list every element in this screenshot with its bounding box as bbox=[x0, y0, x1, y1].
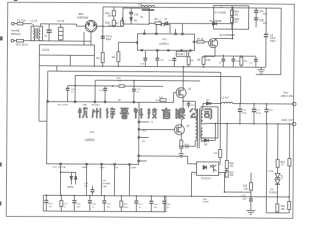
capacitor C21 bbox=[241, 196, 253, 211]
inductor L2 bbox=[222, 98, 293, 104]
terminal Vout+ bbox=[280, 92, 296, 106]
wire HV vertical rail bbox=[102, 7, 104, 53]
svg-text:1M: 1M bbox=[235, 14, 238, 16]
svg-text:(L6561): (L6561) bbox=[159, 42, 169, 46]
svg-text:+58V 0.35A: +58V 0.35A bbox=[280, 95, 293, 98]
wire secondary top bbox=[202, 103, 204, 110]
wire Q2 drain up bbox=[182, 67, 184, 88]
resistor R2 bbox=[116, 17, 124, 26]
capacitor C29 bottom bus bbox=[162, 195, 171, 212]
svg-text:1R5: 1R5 bbox=[185, 147, 190, 149]
capacitor C9 bbox=[218, 54, 225, 67]
resistor R9 bbox=[240, 55, 248, 67]
resistor R6 under IC2 bbox=[187, 51, 194, 67]
transistor Q3 MOSFET bbox=[174, 125, 190, 135]
wire AC bottom bbox=[40, 40, 91, 42]
resistor R23 bbox=[268, 123, 286, 173]
input sub-box bbox=[39, 45, 94, 66]
svg-text:CAP: CAP bbox=[102, 185, 107, 188]
capacitor C14hb bbox=[187, 101, 196, 108]
wire opto LED cathode bbox=[191, 172, 197, 197]
fuse F1 bbox=[14, 19, 32, 25]
wires IC1 bottom pins down bbox=[60, 165, 129, 196]
svg-text:5-T+A(3R): 5-T+A(3R) bbox=[215, 11, 226, 14]
wire right column B box edge bbox=[280, 8, 282, 75]
transformer T1 primary bbox=[195, 109, 197, 141]
zener DZ5A pair bbox=[60, 171, 77, 189]
transformer T1 secondary B bbox=[201, 128, 203, 142]
svg-text:INV_STBY: INV_STBY bbox=[58, 105, 69, 107]
node HV right bbox=[232, 7, 234, 9]
IC1 bottom pin names bbox=[53, 166, 137, 170]
resistor R24 bottom bbox=[288, 197, 291, 213]
svg-text:NTC 5D-9: NTC 5D-9 bbox=[16, 43, 28, 47]
capacitor C25 bottom bus bbox=[102, 195, 111, 212]
wire right ground bus bbox=[266, 212, 289, 214]
svg-text:0.68: 0.68 bbox=[206, 60, 211, 62]
svg-text:L1 1A: L1 1A bbox=[31, 19, 38, 23]
wire Q1 drain bbox=[215, 37, 232, 39]
transistor Q1 MOSFET bbox=[209, 35, 236, 48]
svg-text:D1 1N5406: D1 1N5406 bbox=[210, 21, 222, 23]
capacitor C3 bbox=[101, 35, 113, 41]
wire top rail to right columns bbox=[233, 7, 281, 9]
diode D8 bbox=[203, 123, 217, 147]
capacitor R15 bottom bus bbox=[44, 194, 53, 211]
capacitor C6 bbox=[164, 19, 168, 25]
svg-text:1M: 1M bbox=[235, 21, 238, 23]
capacitor C22 bottom bus bbox=[60, 195, 69, 212]
svg-text:470u: 470u bbox=[256, 113, 262, 115]
capacitor C5B bbox=[254, 18, 268, 27]
svg-text:PFC_GD P.A: PFC_GD P.A bbox=[53, 166, 66, 169]
diode D7 bbox=[207, 100, 222, 105]
wire right column A bbox=[265, 8, 267, 34]
svg-text:265VAC: 265VAC bbox=[11, 32, 21, 36]
ground Q3 bbox=[178, 154, 184, 158]
wire opto emitter to node bbox=[218, 172, 251, 193]
secondary sub-box bbox=[201, 107, 218, 138]
svg-text:2KBP06M: 2KBP06M bbox=[77, 16, 88, 19]
svg-text:PC817: PC817 bbox=[177, 53, 185, 56]
svg-text:R5A: R5A bbox=[235, 11, 240, 14]
svg-text:400V: 400V bbox=[106, 38, 112, 41]
svg-text:IC1: IC1 bbox=[90, 130, 95, 134]
ground main bbox=[246, 196, 255, 214]
capacitor C23 bottom bus bbox=[72, 195, 81, 212]
resistor R3 bbox=[96, 53, 104, 67]
svg-text:HVG: HVG bbox=[142, 130, 147, 132]
resistor R21 bbox=[276, 197, 286, 213]
capacitor C5A bbox=[254, 8, 268, 18]
snubber sub-box bbox=[123, 8, 149, 24]
resistor R22b stacked bbox=[225, 170, 234, 177]
feedback wire A bbox=[47, 71, 221, 163]
capacitor C16 bbox=[238, 103, 248, 125]
svg-text:Vin=85-: Vin=85- bbox=[11, 29, 20, 33]
svg-text:D2-D5: D2-D5 bbox=[42, 50, 49, 52]
capacitor C28 bottom bus bbox=[149, 195, 158, 212]
node DC+ junction bbox=[102, 25, 104, 27]
resistor R19 bbox=[214, 149, 222, 157]
svg-text:FLAG: FLAG bbox=[203, 200, 209, 203]
IC1 top pins bbox=[47, 101, 135, 103]
wire ground bus bbox=[43, 210, 165, 213]
resistor R14 bbox=[159, 97, 166, 102]
svg-text:1M: 1M bbox=[108, 25, 111, 28]
wire Q1 source row rail bbox=[204, 55, 256, 57]
svg-text:1N: 1N bbox=[140, 17, 143, 19]
transformer T1 core bbox=[197, 108, 199, 148]
wire AC top bbox=[40, 23, 76, 25]
resistor R8 sense bbox=[197, 56, 211, 67]
resistor R13 Q3 source bbox=[180, 135, 190, 154]
wire bottom bus bbox=[43, 195, 289, 197]
net label PC box bbox=[176, 51, 187, 56]
capacitor C14 under IC2 bbox=[155, 51, 164, 67]
optocoupler PC1 bbox=[194, 162, 222, 181]
svg-text:OCA: OCA bbox=[268, 170, 273, 173]
diode D1 bbox=[210, 21, 233, 25]
capacitor C15b bbox=[132, 80, 142, 103]
bridge rectifier BR1 bbox=[76, 13, 123, 45]
wire IC2 pin5 up bbox=[175, 29, 177, 33]
svg-text:L6591: L6591 bbox=[85, 138, 95, 142]
wire GND bus mid bbox=[39, 66, 265, 68]
wire drain rail bbox=[232, 8, 234, 39]
capacitor C7 bypass bbox=[156, 20, 170, 33]
NTC thermistor bbox=[14, 39, 32, 46]
terminal Vout- bbox=[281, 119, 296, 126]
op-amp IC2 L6561 box bbox=[136, 33, 195, 51]
ground mid bus bbox=[258, 67, 265, 74]
input voltage label bbox=[11, 29, 21, 37]
IC1 right pins bbox=[138, 121, 154, 162]
capacitor C5 bulk bbox=[264, 34, 276, 44]
capacitor C2 X2 box bbox=[57, 19, 65, 41]
IC1 bottom pins bbox=[60, 163, 131, 165]
capacitor C10 bbox=[66, 86, 76, 102]
svg-text:C12: C12 bbox=[134, 14, 139, 16]
resistor R1A bbox=[105, 7, 115, 18]
resistor R20 bbox=[243, 183, 253, 199]
svg-text:VREF: VREF bbox=[82, 167, 89, 169]
svg-text:COMP: COMP bbox=[130, 167, 137, 169]
capacitor C17o bbox=[252, 103, 262, 125]
inductor T1A boost winding bbox=[138, 3, 155, 10]
capacitor C18o bbox=[264, 103, 273, 124]
capacitor C15 under IC2 bbox=[168, 57, 176, 67]
capacitor C1 X2 bbox=[44, 24, 52, 41]
transformer T1 secondary A bbox=[201, 110, 203, 124]
svg-text:STP8NM50: STP8NM50 bbox=[223, 35, 236, 37]
resistor R5 bbox=[155, 19, 162, 25]
svg-text:1M: 1M bbox=[49, 206, 52, 208]
scan artifact left edge marks bbox=[0, 36, 3, 40]
resistor R22 bbox=[225, 123, 235, 173]
feedback wire C bbox=[95, 80, 200, 102]
wire INV pin left bbox=[118, 42, 136, 52]
net label FB flag bbox=[203, 199, 209, 204]
resistor R1B bbox=[105, 16, 115, 28]
wire Q3 drain up to node bbox=[180, 119, 182, 124]
svg-text:GND_OUT: GND_OUT bbox=[281, 119, 294, 122]
wire top HV rail bbox=[103, 6, 233, 9]
terminal J2 AC neutral bbox=[11, 39, 14, 42]
svg-text:1uF: 1uF bbox=[242, 198, 247, 200]
capacitor C10a bbox=[231, 57, 240, 68]
wire opto LED anode bbox=[139, 156, 196, 164]
capacitor C8 bbox=[249, 57, 257, 68]
svg-text:R22: R22 bbox=[230, 163, 235, 165]
wire IC2 pin8 up bbox=[143, 30, 145, 33]
svg-text:SIGNAL: SIGNAL bbox=[102, 182, 111, 185]
note text bbox=[102, 180, 111, 188]
resistor R24 top bbox=[288, 123, 292, 198]
svg-text:470u: 470u bbox=[242, 112, 248, 114]
svg-text:1M: 1M bbox=[108, 15, 111, 18]
wire left INV drop bbox=[39, 55, 47, 121]
svg-text:C5A: C5A bbox=[259, 10, 264, 13]
wire primary bottom bbox=[180, 141, 195, 147]
wire HVG to Q3 bbox=[140, 128, 175, 130]
wire mid rail bbox=[149, 22, 212, 24]
watermark company name bbox=[78, 107, 211, 119]
svg-text:P.A: P.A bbox=[115, 166, 119, 169]
wire MULT line bbox=[68, 85, 163, 88]
capacitor C13 under IC2 bbox=[140, 51, 148, 67]
wire Q1 source down bbox=[214, 48, 216, 57]
svg-text:450V: 450V bbox=[270, 40, 276, 43]
wire opto collector bbox=[219, 163, 220, 165]
wire half-bridge node bbox=[182, 98, 195, 110]
transistor Q2 MOSFET bbox=[176, 88, 192, 98]
svg-text:TL431A: TL431A bbox=[269, 191, 278, 194]
svg-text:INV/SET: INV/SET bbox=[91, 105, 100, 107]
wire secondary centre tap bbox=[203, 123, 293, 124]
shunt TL431 bbox=[269, 173, 283, 197]
resistor R7 gate bbox=[195, 39, 209, 43]
svg-text:C2 X2: C2 X2 bbox=[57, 19, 65, 23]
resistor R16 on wire bbox=[117, 78, 125, 87]
wire stub bus to line A bbox=[56, 66, 58, 71]
svg-text:LINE: LINE bbox=[82, 105, 87, 107]
terminal J1 AC line bbox=[11, 22, 14, 25]
capacitor C27 bottom bus bbox=[134, 195, 143, 212]
top right resistor sub-box bbox=[214, 6, 249, 30]
feedback wire B bbox=[75, 75, 241, 103]
svg-text:GND: GND bbox=[100, 167, 105, 169]
svg-text:DZ5A: DZ5A bbox=[67, 186, 73, 189]
svg-text:IC2: IC2 bbox=[162, 37, 167, 41]
svg-text:L2 4u7: L2 4u7 bbox=[222, 98, 230, 100]
capacitor C24 bottom bus bbox=[88, 195, 97, 212]
capacitor C19z bbox=[84, 183, 95, 196]
resistor R4 bbox=[112, 52, 120, 67]
wire GD to Q2 bbox=[139, 92, 176, 102]
IC1 L6591 box bbox=[47, 102, 139, 165]
svg-text:ON: ON bbox=[102, 180, 106, 182]
svg-text:PC817A: PC817A bbox=[202, 178, 212, 181]
capacitor C26 bottom bus bbox=[120, 195, 129, 212]
common-mode choke L1 bbox=[30, 19, 42, 41]
wire out- drop bbox=[265, 123, 267, 213]
scan artifact top tick bbox=[14, 0, 18, 1]
wire IC2 pin up to rail bbox=[181, 23, 183, 33]
capacitor C11 bbox=[99, 86, 107, 102]
IC1 top pin names bbox=[58, 98, 167, 107]
